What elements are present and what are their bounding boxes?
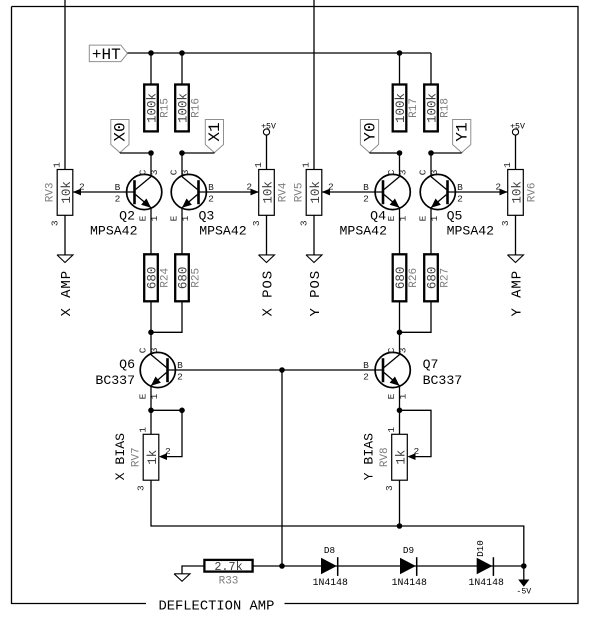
junction +HT/R15: [148, 50, 154, 56]
svg-text:2: 2: [457, 193, 463, 204]
wire Q6 emitter stub: [150, 386, 152, 411]
wire Q5 emitter stub: [430, 208, 432, 255]
svg-text:Q2: Q2: [119, 208, 135, 223]
svg-text:3: 3: [429, 169, 440, 175]
svg-text:1: 1: [253, 162, 264, 168]
junction +HT/R17: [397, 50, 403, 56]
label Q6 value BC337: [95, 373, 135, 388]
svg-text:B: B: [177, 360, 183, 371]
svg-text:3: 3: [397, 347, 408, 353]
svg-text:B: B: [115, 182, 121, 193]
svg-text:X AMP: X AMP: [59, 270, 75, 317]
junction X0/R15: [148, 150, 154, 156]
junction Y1/R18: [428, 150, 434, 156]
svg-text:3: 3: [397, 169, 408, 175]
svg-text:3: 3: [149, 347, 160, 353]
svg-text:E: E: [169, 215, 180, 221]
svg-text:3: 3: [299, 220, 310, 226]
transistor Q3: [169, 169, 214, 221]
svg-text:MPSA42: MPSA42: [199, 224, 246, 239]
svg-text:+5V: +5V: [261, 122, 276, 131]
svg-text:E: E: [138, 215, 149, 221]
label Q5 value MPSA42: [447, 224, 494, 239]
wire RV3 wiper to Q2 base: [73, 191, 135, 193]
svg-text:10k: 10k: [309, 181, 323, 204]
wire R26 to node: [399, 301, 401, 332]
svg-text:DEFLECTION AMP: DEFLECTION AMP: [158, 599, 274, 614]
wire RV7 pin3 to rail: [151, 480, 524, 566]
svg-text:MPSA42: MPSA42: [90, 224, 137, 239]
svg-text:3: 3: [50, 220, 61, 226]
svg-text:1N4148: 1N4148: [392, 577, 427, 588]
transistor Q6: [138, 347, 183, 399]
wire Q2 collector stub: [150, 153, 152, 177]
svg-text:MPSA42: MPSA42: [447, 224, 494, 239]
svg-text:100k: 100k: [177, 93, 191, 123]
port Y POS: [306, 215, 324, 316]
wire R18 top stub: [430, 53, 432, 85]
svg-text:1N4148: 1N4148: [313, 577, 348, 588]
svg-text:MPSA42: MPSA42: [340, 224, 387, 239]
junction +HT/R16: [179, 50, 185, 56]
resistor R24 680: [144, 254, 171, 301]
svg-text:3: 3: [180, 169, 191, 175]
svg-text:+5V: +5V: [510, 122, 525, 131]
svg-text:1: 1: [52, 162, 63, 168]
svg-text:Y0: Y0: [361, 122, 379, 141]
svg-text:2: 2: [246, 181, 252, 192]
power +5V (RV6): [510, 122, 525, 169]
svg-text:Y1: Y1: [454, 122, 472, 141]
svg-text:2: 2: [328, 181, 334, 192]
svg-text:3: 3: [251, 220, 262, 226]
resistor R17 100k: [393, 85, 420, 132]
junction Y0/R17: [397, 150, 403, 156]
wire Q7 collector stub: [399, 332, 401, 354]
svg-text:C: C: [418, 169, 429, 175]
svg-text:100k: 100k: [394, 93, 408, 123]
resistor R26 680: [393, 254, 420, 301]
svg-text:C: C: [138, 169, 149, 175]
svg-text:+HT: +HT: [92, 46, 121, 64]
svg-text:C: C: [138, 347, 149, 353]
wire R33 right: [253, 565, 282, 567]
svg-text:Q4: Q4: [370, 208, 386, 223]
svg-text:RV6: RV6: [527, 182, 539, 202]
svg-text:2.7k: 2.7k: [214, 560, 242, 574]
svg-text:Q6: Q6: [119, 357, 135, 372]
svg-text:BC337: BC337: [95, 373, 135, 388]
wire Q6 collector stub: [150, 332, 152, 354]
label Q2 value MPSA42: [90, 224, 137, 239]
svg-text:Y BIAS: Y BIAS: [362, 433, 377, 481]
power -5V: [516, 566, 531, 597]
wire R25 to node: [151, 301, 182, 332]
svg-text:R33: R33: [219, 576, 239, 588]
svg-text:3: 3: [500, 220, 511, 226]
transistor Q7: [363, 347, 410, 399]
label flag X1: [182, 120, 224, 154]
power +5V (RV4): [261, 122, 276, 169]
svg-text:Y AMP: Y AMP: [509, 270, 525, 317]
wire RV7 wiper loop: [151, 410, 182, 456]
svg-text:3: 3: [384, 485, 395, 491]
label Q2 ref: [119, 208, 135, 223]
svg-text:680: 680: [177, 267, 191, 290]
wire RV3 pin1 feed: [64, 0, 66, 170]
label Q3 ref: [199, 208, 215, 223]
svg-text:R26: R26: [408, 268, 420, 288]
svg-text:1: 1: [301, 162, 312, 168]
svg-text:C: C: [386, 347, 397, 353]
svg-text:D9: D9: [403, 545, 414, 556]
title DEFLECTION AMP: [158, 599, 274, 614]
wire R33 left + gnd stub: [182, 566, 204, 574]
power flag +HT: [89, 45, 127, 64]
resistor R15 100k: [144, 85, 171, 132]
svg-text:R16: R16: [191, 98, 203, 118]
svg-text:E: E: [418, 215, 429, 221]
wire R27 to node: [400, 301, 432, 332]
wire RV7 pin1: [150, 410, 152, 434]
label Q4 value MPSA42: [340, 224, 387, 239]
label Q5 ref: [447, 208, 463, 223]
wire RV8 pin3: [399, 480, 401, 526]
wire R17 top stub: [399, 53, 401, 85]
label Q7 ref: [423, 357, 439, 372]
svg-text:B: B: [363, 182, 369, 193]
svg-text:1N4148: 1N4148: [469, 577, 504, 588]
svg-text:10k: 10k: [511, 181, 525, 204]
label flag Y1: [431, 120, 472, 154]
svg-text:10k: 10k: [262, 181, 276, 204]
potentiometer RV5 10k: [294, 162, 334, 226]
resistor R33 2.7k: [204, 560, 252, 588]
junction Q7 emitter: [397, 408, 403, 414]
svg-text:R15: R15: [160, 98, 172, 118]
wire Q5 collector stub: [430, 153, 432, 177]
label Q4 ref: [370, 208, 386, 223]
svg-text:Q3: Q3: [199, 208, 215, 223]
wire Q4 emitter stub: [399, 208, 401, 255]
svg-text:Y POS: Y POS: [308, 270, 324, 317]
diode D8 1N4148: [313, 545, 348, 588]
svg-text:C: C: [386, 169, 397, 175]
junction X1/R16: [179, 150, 185, 156]
svg-text:X1: X1: [206, 122, 224, 141]
svg-text:C: C: [169, 169, 180, 175]
svg-text:B: B: [363, 360, 369, 371]
svg-text:R17: R17: [408, 98, 420, 118]
svg-text:Q7: Q7: [423, 357, 439, 372]
svg-text:1k: 1k: [395, 450, 409, 465]
svg-text:X BIAS: X BIAS: [113, 433, 128, 481]
label Q7 value BC337: [423, 373, 463, 388]
transistor Q4: [363, 169, 410, 221]
svg-text:10k: 10k: [60, 181, 74, 204]
wire diode rail: [282, 565, 524, 567]
wire Q4 collector stub: [399, 153, 401, 177]
potentiometer RV6 10k: [495, 162, 538, 226]
port Y AMP: [508, 215, 526, 316]
potentiometer RV8 1k: [379, 427, 419, 491]
potentiometer RV3 10k: [45, 162, 85, 226]
svg-text:RV3: RV3: [45, 182, 57, 202]
transistor Q2: [115, 169, 162, 221]
junction RV7 loop: [179, 408, 185, 414]
svg-text:680: 680: [426, 267, 440, 290]
svg-text:X POS: X POS: [260, 270, 276, 317]
wire Q6 base to Q7 base: [169, 369, 383, 371]
wire RV8 pin1: [399, 410, 401, 434]
svg-text:2: 2: [363, 371, 369, 382]
wire Q3 collector stub: [181, 153, 183, 177]
svg-text:2: 2: [165, 446, 171, 457]
svg-text:R18: R18: [440, 98, 452, 118]
svg-text:100k: 100k: [146, 93, 160, 123]
resistor R18 100k: [424, 85, 451, 132]
svg-text:R24: R24: [160, 268, 172, 288]
svg-text:680: 680: [394, 267, 408, 290]
svg-text:1: 1: [138, 427, 149, 433]
svg-text:Q5: Q5: [447, 208, 463, 223]
label X BIAS: [113, 433, 128, 481]
svg-text:X0: X0: [112, 122, 130, 141]
wire Q2 emitter stub: [150, 208, 152, 255]
svg-text:D8: D8: [324, 545, 335, 556]
svg-text:E: E: [386, 393, 397, 399]
svg-text:2: 2: [495, 181, 501, 192]
wire RV5 wiper to Q4 base: [322, 191, 383, 193]
svg-text:R25: R25: [191, 268, 203, 288]
svg-text:3: 3: [136, 485, 147, 491]
junction R24/R25: [148, 330, 154, 336]
svg-text:2: 2: [115, 193, 121, 204]
junction base rail: [279, 367, 285, 373]
svg-text:RV4: RV4: [278, 182, 290, 202]
svg-text:E: E: [386, 215, 397, 221]
junction RV8/rail: [397, 523, 403, 529]
svg-text:R27: R27: [440, 268, 452, 288]
wire RV8 wiper loop: [400, 410, 432, 456]
resistor R27 680: [424, 254, 451, 301]
junction Q6 emitter: [148, 408, 154, 414]
port X POS: [259, 215, 277, 316]
wire R15 top stub: [150, 53, 152, 85]
svg-text:1: 1: [386, 427, 397, 433]
transistor Q5: [418, 169, 463, 221]
svg-text:1k: 1k: [146, 450, 160, 465]
svg-text:3: 3: [149, 169, 160, 175]
junction diode/-5V: [521, 563, 527, 569]
svg-text:2: 2: [413, 446, 419, 457]
label flag Y0: [360, 120, 399, 154]
svg-text:RV5: RV5: [294, 182, 306, 202]
label flag X0: [111, 120, 151, 154]
diode D10 1N4148: [469, 540, 504, 588]
resistor R25 680: [175, 254, 202, 301]
svg-text:B: B: [208, 182, 214, 193]
label Y BIAS: [362, 433, 377, 481]
junction R26/R27: [397, 330, 403, 336]
potentiometer RV4 10k: [246, 162, 289, 226]
svg-text:E: E: [138, 393, 149, 399]
ground symbol: [174, 574, 190, 582]
diode D9 1N4148: [392, 545, 427, 588]
svg-text:BC337: BC337: [423, 373, 463, 388]
svg-text:680: 680: [146, 267, 160, 290]
svg-text:100k: 100k: [426, 93, 440, 123]
label Q3 value MPSA42: [199, 224, 246, 239]
wire Q7 emitter stub: [399, 386, 401, 411]
svg-text:2: 2: [79, 181, 85, 192]
wire Q3 emitter stub: [181, 208, 183, 255]
svg-text:-5V: -5V: [516, 588, 531, 597]
svg-text:1: 1: [502, 162, 513, 168]
wire +HT rail: [128, 52, 432, 54]
potentiometer RV7 1k: [131, 427, 171, 491]
wire R16 top stub: [181, 53, 183, 85]
wire Q3 base to RV4 wiper: [199, 191, 259, 193]
svg-text:2: 2: [177, 371, 183, 382]
svg-text:2: 2: [363, 193, 369, 204]
wire bias riser: [281, 370, 283, 566]
port X AMP: [57, 215, 75, 316]
svg-text:RV8: RV8: [379, 447, 391, 467]
svg-text:B: B: [457, 182, 463, 193]
svg-text:RV7: RV7: [131, 447, 143, 467]
wire RV5 pin1 feed: [313, 0, 315, 170]
wire Q5 base to RV6 wiper: [448, 191, 508, 193]
svg-text:D10: D10: [475, 540, 486, 557]
wire R24 to node: [150, 301, 152, 332]
resistor R16 100k: [175, 85, 202, 132]
svg-text:2: 2: [208, 193, 214, 204]
label Q6 ref: [119, 357, 135, 372]
junction R33/diodes: [279, 563, 285, 569]
